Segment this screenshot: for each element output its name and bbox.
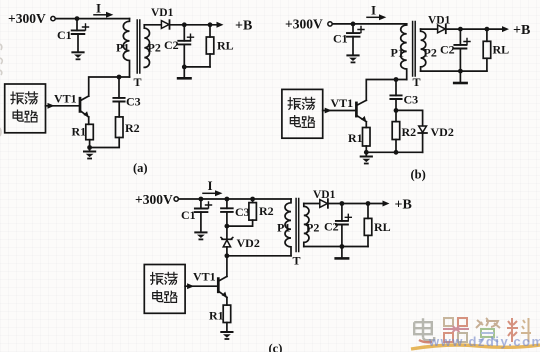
svg-text:+B: +B	[513, 23, 530, 38]
wire C2 bottom lead (a)	[183, 44, 185, 67]
node junction VD2 top (c)	[225, 224, 230, 229]
arrowhead base (a)	[48, 103, 55, 109]
current arrow (a)	[94, 14, 107, 16]
wire tap T to collector (b)	[366, 80, 406, 101]
svg-text:www.dzdiy.com: www.dzdiy.com	[428, 334, 540, 349]
resistor R1 (a)	[86, 124, 94, 139]
capacitor C1 (a)	[72, 30, 85, 34]
transformer primary P1 (b)	[401, 24, 407, 80]
box text line1 (b)	[288, 98, 301, 110]
ground under R1 (b)	[365, 152, 367, 156]
svg-text:VD1: VD1	[428, 15, 451, 27]
wire P2 top to diode (b)	[421, 28, 438, 30]
transformer core (c)	[296, 199, 299, 252]
wire to VD2 (b)	[396, 110, 423, 125]
svg-text:+300V: +300V	[285, 17, 323, 32]
node junction R2 top (c)	[250, 197, 255, 202]
wire emitter lead (c)	[226, 297, 228, 305]
svg-text:R2: R2	[402, 125, 417, 139]
wire C3 to R2 (a)	[118, 102, 120, 117]
terminal (b)	[328, 22, 332, 26]
svg-text:(a): (a)	[133, 161, 148, 175]
svg-text:RL: RL	[374, 220, 391, 234]
wire emitter lead (a)	[88, 117, 90, 124]
wire C2 top lead (a)	[183, 25, 185, 41]
node junction R2/VD2 top (b)	[394, 108, 399, 113]
resistor R2 (b)	[395, 110, 397, 121]
capacitor C2 (c)	[336, 221, 348, 225]
transformer core (b)	[413, 22, 416, 77]
node junction RL top (b)	[485, 27, 490, 32]
watermark char dian 电	[414, 318, 434, 340]
svg-text:I: I	[371, 3, 376, 18]
svg-text:P1: P1	[116, 41, 129, 55]
wire C2 bottom lead (c)	[341, 225, 343, 247]
terminal (a)	[51, 16, 55, 20]
transformer primary P1 (c)	[285, 199, 291, 256]
oscillator box (a)	[5, 84, 46, 133]
node junction emitter-ground (b)	[364, 150, 369, 155]
wire tap T to collector (a)	[89, 77, 130, 96]
watermark char liao 料	[507, 318, 531, 342]
svg-text:VD2: VD2	[431, 125, 454, 139]
svg-text:RL: RL	[493, 43, 510, 57]
wire base drive (a)	[46, 105, 81, 107]
box text line1 (c)	[151, 273, 164, 285]
node junction T (a)	[117, 75, 122, 80]
capacitor C3 (a)	[113, 98, 124, 102]
svg-text:P2: P2	[424, 46, 437, 60]
resistor R2 (a)	[116, 117, 124, 138]
node junction C3 (c)	[225, 197, 230, 202]
wire base drive (b)	[323, 110, 357, 112]
svg-text:T: T	[293, 254, 301, 268]
svg-text:C3: C3	[126, 95, 141, 109]
wire bottom emitter return (b)	[366, 151, 422, 153]
wire C1 top lead (b)	[352, 24, 354, 33]
wire tap to P1 bottom (c)	[227, 255, 291, 257]
arrow to +B (a)	[217, 22, 224, 28]
node junction collector tap (c)	[225, 253, 230, 258]
svg-text:VT1: VT1	[331, 96, 354, 110]
watermark swoosh	[411, 345, 540, 349]
wire bottom return (b)	[421, 70, 487, 72]
wire diode to +B (b)	[446, 28, 504, 30]
oscillator box (c)	[144, 265, 185, 314]
svg-text:RL: RL	[217, 39, 234, 53]
svg-text:+300V: +300V	[135, 192, 173, 207]
svg-text:I: I	[208, 178, 213, 193]
transformer secondary P2 (b)	[421, 29, 426, 71]
wire VD2 top lead (c)	[226, 226, 228, 239]
resistor RL (b)	[486, 29, 488, 41]
capacitor C1 (b)	[347, 33, 360, 37]
svg-text:VD2: VD2	[237, 236, 260, 250]
svg-text:VD1: VD1	[151, 7, 174, 19]
wire R2 bottom (a)	[90, 138, 120, 148]
arrowhead base (c)	[187, 283, 194, 289]
ground under R1 (c)	[221, 332, 232, 339]
transformer core (a)	[137, 20, 140, 73]
svg-text:(c): (c)	[269, 342, 283, 352]
svg-text:C2: C2	[440, 43, 455, 57]
diode VD2 (b)	[419, 126, 427, 132]
resistor RL (c)	[367, 204, 369, 219]
wire P2 top to diode (c)	[304, 203, 320, 205]
svg-text:+B: +B	[395, 198, 412, 213]
watermark char qi 器	[443, 318, 469, 342]
wire C3 bottom lead (c)	[226, 212, 228, 226]
node junction emitter-ground (a)	[87, 145, 92, 150]
wire C3 to node (b)	[395, 99, 397, 110]
transistor VT1 (b)	[355, 103, 358, 116]
svg-text:C3: C3	[235, 205, 250, 219]
svg-text:T: T	[413, 75, 421, 89]
ground under C1 (b)	[347, 55, 358, 62]
wire VD2 bottom lead (c)	[226, 247, 228, 256]
wire C1 top lead (c)	[200, 199, 202, 209]
transformer primary P1 (a)	[123, 19, 129, 77]
box text line2 (c)	[153, 291, 163, 302]
diode VD2 (c)	[221, 238, 233, 240]
svg-text:C3: C3	[404, 93, 419, 107]
wire bottom return (c)	[304, 246, 368, 248]
wire C3 top lead (b)	[395, 80, 397, 96]
svg-text:R1: R1	[72, 125, 87, 139]
transformer secondary P2 (c)	[304, 204, 309, 247]
svg-text:R1: R1	[209, 309, 224, 323]
arrow to +B (b)	[502, 26, 509, 32]
svg-text:C2: C2	[324, 220, 339, 234]
node junction C2 top (b)	[458, 27, 463, 32]
wire C2 top lead (b)	[459, 29, 461, 45]
wire R1 bottom (a)	[89, 140, 91, 148]
transistor VT1 (a)	[79, 98, 82, 111]
wire base drive (c)	[185, 285, 218, 287]
svg-text:+300V: +300V	[8, 11, 46, 26]
svg-text:R1: R1	[348, 131, 363, 145]
oscillator box (b)	[282, 89, 323, 138]
current arrow (b)	[367, 16, 380, 18]
watermark char zi 资	[476, 318, 500, 342]
node junction C2 top (c)	[340, 201, 345, 206]
capacitor C3 (c)	[221, 208, 233, 212]
wire C2 top lead (c)	[341, 204, 343, 221]
svg-text:C1: C1	[181, 208, 196, 222]
wire C2 bottom lead (b)	[459, 49, 461, 72]
wire C3 top lead (a)	[118, 77, 120, 98]
wire C1 bottom lead (c)	[200, 212, 202, 232]
terminal (c)	[174, 197, 178, 201]
ground under R1 (a)	[89, 148, 91, 152]
box text line2 (b)	[290, 116, 300, 127]
svg-text:VD1: VD1	[313, 189, 336, 201]
svg-text:C1: C1	[333, 32, 348, 46]
wire +300V rail (a)	[55, 18, 129, 20]
diode VD1 (b)	[438, 25, 446, 33]
node junction C2 bottom (a)	[182, 65, 187, 70]
box text line2 (a)	[13, 110, 23, 121]
wire C1 bottom lead (b)	[352, 37, 354, 55]
node junction C1 (b)	[351, 22, 356, 27]
node junction C1 (a)	[75, 16, 80, 21]
svg-text:VT1: VT1	[54, 92, 77, 106]
resistor R1 (c)	[223, 305, 231, 322]
capacitor C2 (b)	[454, 45, 466, 49]
current arrow (c)	[203, 192, 216, 194]
node junction C2 bottom (c)	[340, 244, 345, 249]
capacitor C1 (c)	[195, 209, 208, 213]
svg-text:R2: R2	[125, 121, 140, 135]
svg-text:T: T	[134, 75, 142, 89]
arrowhead base (b)	[325, 108, 332, 114]
svg-text:P2: P2	[306, 221, 319, 235]
svg-text:+B: +B	[235, 19, 252, 34]
svg-text:VT1: VT1	[193, 270, 216, 284]
svg-text:I: I	[96, 1, 101, 16]
node junction C2 bottom (b)	[458, 69, 463, 74]
wire R1 bottom (c)	[226, 323, 228, 332]
node junction RL top (a)	[208, 22, 213, 27]
resistor R1 (b)	[363, 128, 371, 147]
resistor RL (a)	[209, 25, 211, 37]
node junction C2 top (a)	[182, 22, 187, 27]
svg-text:P1: P1	[391, 46, 404, 60]
diode VD1 (a)	[161, 21, 169, 29]
wire ground stub (c)	[341, 247, 343, 258]
node junction T (b)	[394, 77, 399, 82]
wire C1 top lead (a)	[76, 19, 78, 31]
ground under C2 (c)	[336, 257, 348, 259]
capacitor C2 (a)	[178, 41, 190, 45]
svg-text:(b): (b)	[411, 168, 426, 182]
ground under C2 (b)	[454, 82, 466, 84]
svg-text:R2: R2	[259, 204, 274, 218]
wire P2 top to diode (a)	[144, 24, 161, 26]
wire diode to +B (c)	[328, 203, 384, 205]
wire diode to +B (a)	[170, 24, 219, 26]
ground under C2 (a)	[178, 77, 190, 79]
wire ground stub (a)	[183, 67, 185, 78]
diode VD1 (c)	[320, 200, 328, 208]
node junction RL top (c)	[366, 201, 371, 206]
resistor R2 (c)	[252, 199, 254, 203]
wire bottom return (a)	[184, 66, 210, 68]
svg-text:C1: C1	[57, 28, 72, 42]
transformer secondary P2 (a)	[144, 25, 149, 68]
svg-text:C2: C2	[164, 38, 179, 52]
wire C3 top lead (c)	[226, 199, 228, 208]
ground under C1 (a)	[72, 52, 83, 59]
wire ground stub (b)	[459, 71, 461, 82]
wire collector lead (c)	[226, 256, 228, 277]
svg-text:P1: P1	[277, 221, 290, 235]
wire +300V rail (b)	[332, 23, 406, 25]
wire C1 bottom lead (a)	[77, 34, 79, 52]
wire +300V rail (c)	[179, 198, 291, 200]
transistor VT1 (c)	[217, 279, 220, 292]
node junction C1 (c)	[199, 197, 204, 202]
node junction R2 bottom (b)	[394, 150, 399, 155]
svg-text:P2: P2	[148, 41, 161, 55]
box text line1 (a)	[11, 92, 24, 104]
capacitor C3 (b)	[390, 95, 401, 99]
wire R1 bottom (b)	[365, 146, 367, 152]
arrow to +B (c)	[383, 201, 390, 207]
ground under C1 (c)	[195, 232, 206, 239]
wire emitter lead (b)	[365, 122, 367, 128]
scan smudges left edge	[0, 44, 2, 136]
